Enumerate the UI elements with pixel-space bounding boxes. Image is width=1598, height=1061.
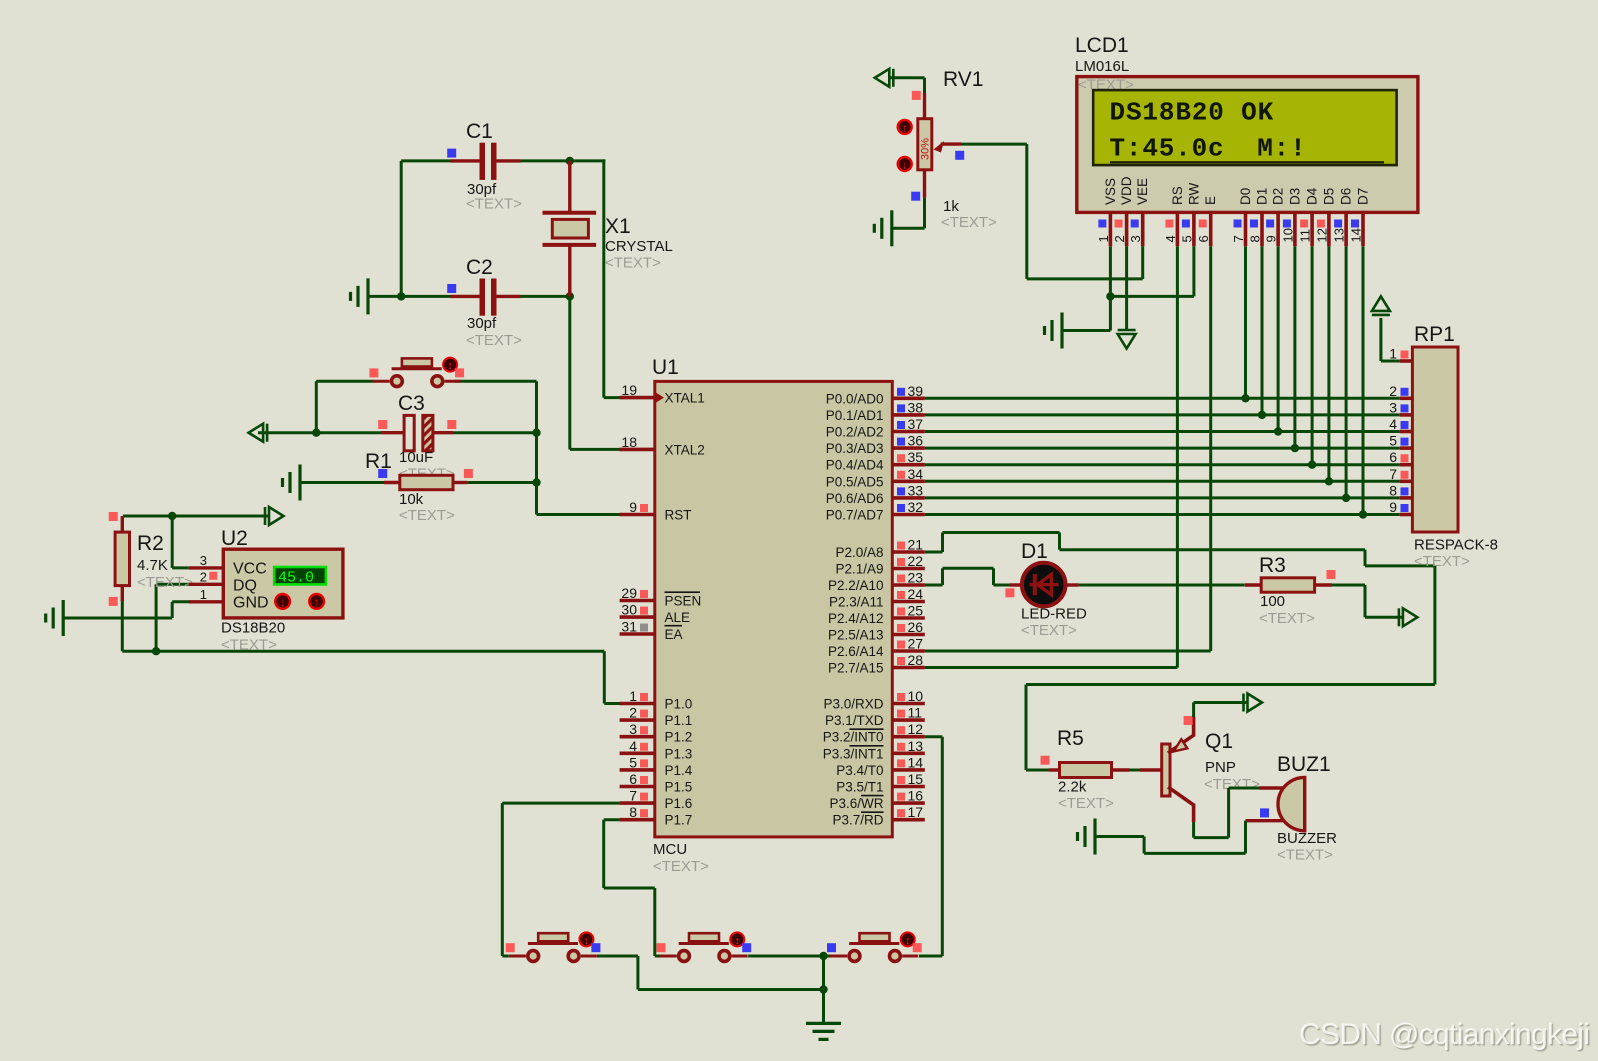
U1 pin 15 P3.5/T1 [892, 785, 925, 789]
svg-text:13: 13 [1332, 228, 1347, 242]
svg-text:33: 33 [908, 482, 924, 498]
svg-text:P2.2/A10: P2.2/A10 [828, 578, 884, 593]
svg-text:X1: X1 [605, 215, 631, 238]
svg-text:18: 18 [621, 434, 637, 450]
ground near U2 [62, 600, 65, 636]
svg-text:P0.5/AD5: P0.5/AD5 [826, 474, 884, 489]
node C3 right junction [532, 429, 540, 437]
svg-text:8: 8 [629, 804, 637, 820]
svg-text:<TEXT>: <TEXT> [1277, 847, 1333, 864]
U1 pin 16 P3.6/WR [892, 801, 925, 805]
svg-text:↕: ↕ [905, 935, 911, 947]
power arrow right of R3 [1403, 608, 1418, 626]
wire U2 GND to ground [171, 602, 174, 618]
wire BUZ1 bottom to ground [1244, 821, 1247, 854]
U1 pin 22 P2.1/A9 [892, 567, 925, 571]
U1 pin 35 P0.4/AD4 [892, 463, 925, 467]
svg-text:CRYSTAL: CRYSTAL [605, 238, 673, 255]
svg-text:4: 4 [1389, 416, 1397, 432]
wire button2 right [748, 955, 833, 958]
svg-text:P3.5/T1: P3.5/T1 [836, 780, 883, 795]
U1 pin 2 P1.1 [620, 718, 655, 722]
RP1 pin 2 [1400, 396, 1413, 400]
svg-text:P0.1/AD1: P0.1/AD1 [826, 408, 884, 423]
potentiometer RV1 [923, 93, 926, 119]
capacitor C3 [381, 431, 404, 434]
svg-text:39: 39 [908, 383, 924, 399]
ground near R1 [298, 465, 301, 501]
wire LCD D2 vertical [1277, 246, 1280, 431]
svg-text:9: 9 [629, 499, 637, 515]
svg-text:D4: D4 [1305, 187, 1320, 205]
U1 pin 30 ALE [620, 615, 655, 619]
wire RST to pin 9 [537, 513, 622, 516]
capacitor C2 [451, 295, 481, 298]
svg-text:P1.7: P1.7 [665, 813, 693, 828]
svg-text:P1.2: P1.2 [665, 730, 693, 745]
crystal X1 [568, 161, 571, 212]
svg-text:P0.2/AD2: P0.2/AD2 [826, 425, 884, 440]
svg-text:VEE: VEE [1135, 178, 1150, 205]
RP1 pin 3 [1400, 413, 1413, 417]
push button 1 [528, 942, 578, 945]
U1 pin 1 P1.0 [620, 702, 655, 706]
svg-text:P1.3: P1.3 [665, 746, 693, 761]
ground bottom center [806, 1022, 841, 1025]
svg-text:P3.6/WR: P3.6/WR [829, 796, 883, 811]
svg-text:3: 3 [1128, 235, 1143, 242]
svg-text:14: 14 [1349, 228, 1364, 242]
LCD1 pin 12 D5 [1327, 212, 1331, 246]
U1 pin 23 P2.2/A10 [892, 583, 925, 587]
capacitor C1 [451, 159, 481, 162]
svg-text:2.2k: 2.2k [1058, 779, 1087, 796]
node VSS/RW junction [1106, 292, 1114, 300]
node C2/X1 junction [566, 292, 574, 300]
svg-text:P2.5/A13: P2.5/A13 [828, 628, 884, 643]
svg-text:30pf: 30pf [467, 315, 497, 332]
svg-text:P0.6/AD6: P0.6/AD6 [826, 491, 884, 506]
MCU U1 body [655, 381, 893, 837]
U1 pin 33 P0.6/AD6 [892, 496, 925, 500]
wire LCD VSS to ground [1109, 246, 1112, 330]
sensor U2 DS18B20 [189, 566, 224, 569]
wire ground drop [822, 956, 825, 1023]
svg-text:RS: RS [1170, 186, 1185, 205]
svg-text:8: 8 [1389, 482, 1397, 498]
node C3 left junction [312, 429, 320, 437]
wire R3 to power arrow [1332, 584, 1365, 587]
LCD1 pin 9 D2 [1276, 212, 1280, 246]
svg-text:4: 4 [629, 738, 637, 754]
svg-text:<TEXT>: <TEXT> [1021, 622, 1077, 639]
svg-text:32: 32 [908, 499, 924, 515]
LCD1 body [1077, 77, 1418, 213]
U1 pin 34 P0.5/AD5 [892, 479, 925, 483]
svg-text:C3: C3 [398, 392, 425, 415]
svg-text:6: 6 [1196, 235, 1211, 242]
svg-text:XTAL1: XTAL1 [665, 391, 705, 406]
node C2 left junction [397, 292, 405, 300]
svg-text:5: 5 [629, 754, 637, 770]
svg-text:↕: ↕ [584, 935, 590, 947]
svg-text:13: 13 [908, 738, 924, 754]
svg-text:P0.3/AD3: P0.3/AD3 [826, 441, 884, 456]
node D7 junction [1359, 510, 1367, 518]
svg-text:T:45.0c M:!: T:45.0c M:! [1110, 133, 1307, 163]
wire LCD D7 vertical [1362, 246, 1365, 514]
wire P2.2 to D1 [925, 584, 943, 587]
wire P1.7 to button 2 [604, 818, 620, 821]
U1 pin 28 P2.7/A15 [892, 666, 925, 670]
U1 pin 3 P1.2 [620, 735, 655, 739]
U1 pin 26 P2.5/A13 [892, 633, 925, 637]
node D5 junction [1325, 477, 1333, 485]
svg-text:PNP: PNP [1205, 759, 1236, 776]
svg-text:<TEXT>: <TEXT> [653, 858, 709, 875]
svg-text:6: 6 [1389, 449, 1397, 465]
U1 pin 12 P3.2/INT0 [892, 735, 925, 739]
power arrow right of Q1 [1248, 694, 1263, 712]
svg-text:↑: ↑ [902, 122, 908, 134]
U1 pin 21 P2.0/A8 [892, 550, 925, 554]
svg-text:<TEXT>: <TEXT> [221, 637, 277, 654]
resistor pack RP1 [1412, 347, 1458, 532]
wire button1 right to ground bus [597, 955, 638, 958]
wire button3 right to P3.2 [919, 955, 942, 958]
svg-text:35: 35 [908, 449, 924, 465]
resistor R3 [1245, 583, 1261, 586]
LCD1 pin 14 D7 [1361, 212, 1365, 246]
U1 pin 27 P2.6/A14 [892, 649, 925, 653]
wire P0.1 row to RP1 pin 3 [925, 413, 1400, 416]
svg-text:LED-RED: LED-RED [1021, 606, 1087, 623]
RV1 up button [898, 120, 912, 134]
RP1 pin 7 [1400, 479, 1413, 483]
ground near C2 [366, 278, 369, 314]
svg-text:30%: 30% [920, 138, 932, 160]
wire LCD VDD to power [1125, 246, 1128, 330]
RV1 down button [898, 157, 912, 171]
wire LCD RW to VSS [1192, 246, 1195, 296]
LCD1 screen [1093, 90, 1396, 165]
LCD1 pin 13 D6 [1344, 212, 1348, 246]
svg-text:1: 1 [629, 688, 637, 704]
U1 pin 4 P1.3 [620, 751, 655, 755]
U2 up button [309, 594, 324, 609]
svg-text:CSDN @cqtianxingkeji: CSDN @cqtianxingkeji [1299, 1018, 1590, 1051]
svg-text:Q1: Q1 [1205, 730, 1233, 753]
svg-text:RV1: RV1 [943, 68, 983, 91]
svg-text:U2: U2 [221, 527, 248, 550]
svg-text:27: 27 [908, 636, 924, 652]
svg-text:28: 28 [908, 652, 924, 668]
wire Q1 collector to BUZ1 [1192, 822, 1195, 838]
svg-text:31: 31 [621, 619, 637, 635]
node D3 junction [1291, 444, 1299, 452]
svg-text:7: 7 [629, 788, 637, 804]
U1 pin 32 P0.7/AD7 [892, 513, 925, 517]
svg-text:P0.0/AD0: P0.0/AD0 [826, 391, 884, 406]
U1 pin 8 P1.7 [620, 818, 655, 822]
node DQ junction [152, 647, 160, 655]
svg-text:9: 9 [1389, 499, 1397, 515]
svg-text:PSEN: PSEN [665, 594, 702, 609]
U1 pin 14 P3.4/T0 [892, 768, 925, 772]
wire R1 row right [467, 481, 536, 484]
svg-text:C2: C2 [466, 256, 493, 279]
svg-text:23: 23 [908, 570, 924, 586]
svg-text:↕: ↕ [447, 360, 453, 372]
power arrow above RP1 [1372, 296, 1390, 311]
svg-text:30: 30 [621, 602, 637, 618]
wire RP1 pin1 to power [1381, 360, 1400, 363]
svg-text:38: 38 [908, 399, 924, 415]
power arrow down VDD [1118, 334, 1136, 349]
svg-text:D1: D1 [1021, 540, 1048, 563]
svg-text:10: 10 [1280, 228, 1295, 242]
svg-text:3: 3 [1389, 399, 1397, 415]
LCD1 pin 10 D3 [1293, 212, 1297, 246]
svg-text:29: 29 [621, 585, 637, 601]
svg-text:P2.1/A9: P2.1/A9 [835, 562, 883, 577]
svg-text:1: 1 [1389, 346, 1397, 362]
svg-text:45.0: 45.0 [278, 570, 314, 587]
svg-text:↕: ↕ [734, 935, 740, 947]
svg-text:15: 15 [908, 771, 924, 787]
svg-text:P2.4/A12: P2.4/A12 [828, 611, 884, 626]
svg-text:RST: RST [665, 508, 692, 523]
svg-text:6: 6 [629, 771, 637, 787]
transistor Q1 [1140, 768, 1162, 771]
LCD1 pin 2 VDD [1125, 212, 1129, 246]
U1 pin 18 XTAL2 [620, 448, 655, 452]
svg-text:1: 1 [1096, 235, 1111, 242]
svg-text:R3: R3 [1259, 554, 1286, 577]
wire C3 row [258, 431, 381, 434]
U1 pin 6 P1.5 [620, 785, 655, 789]
wire P2.7 to LCD RS [925, 666, 1178, 669]
U1 pin 29 PSEN [620, 599, 655, 603]
svg-text:7: 7 [1231, 235, 1246, 242]
U1 pin 17 P3.7/RD [892, 818, 925, 822]
node VCC junction [168, 512, 176, 520]
U2 down button [275, 594, 290, 609]
svg-text:11: 11 [908, 705, 923, 721]
svg-text:12: 12 [1314, 228, 1329, 242]
svg-text:P1.5: P1.5 [665, 780, 693, 795]
svg-text:<TEXT>: <TEXT> [466, 196, 522, 213]
svg-text:12: 12 [908, 721, 924, 737]
U2 temperature display 45.0 [274, 567, 326, 584]
svg-text:P2.0/A8: P2.0/A8 [835, 545, 883, 560]
wire RV1 top [890, 76, 925, 79]
wire DQ net [121, 599, 124, 651]
U1 pin 13 P3.3/INT1 [892, 751, 925, 755]
svg-text:P3.4/T0: P3.4/T0 [836, 763, 883, 778]
svg-text:<TEXT>: <TEXT> [941, 214, 997, 231]
svg-text:24: 24 [908, 586, 924, 602]
U1 pin 7 P1.6 [620, 801, 655, 805]
svg-text:BUZ1: BUZ1 [1277, 753, 1331, 776]
wire RV1 bottom to ground [923, 198, 926, 229]
svg-text:D0: D0 [1238, 188, 1253, 205]
resistor R1 [300, 481, 400, 484]
svg-text:36: 36 [908, 433, 924, 449]
svg-text:R5: R5 [1057, 727, 1084, 750]
svg-text:D2: D2 [1271, 188, 1286, 205]
svg-text:P3.0/RXD: P3.0/RXD [823, 697, 883, 712]
wire C2 row [368, 295, 451, 298]
U1 pin 10 P3.0/RXD [892, 702, 925, 706]
RP1 pin 9 [1400, 513, 1413, 517]
node D4 junction [1308, 461, 1316, 469]
svg-text:10k: 10k [399, 491, 424, 508]
LCD1 pin 4 RS [1176, 212, 1180, 246]
svg-text:P1.1: P1.1 [665, 713, 693, 728]
wire P2.0 to R5 net [925, 551, 943, 554]
U1 pin 37 P0.2/AD2 [892, 430, 925, 434]
svg-text:BUZZER: BUZZER [1277, 830, 1337, 847]
svg-text:<TEXT>: <TEXT> [137, 574, 193, 591]
svg-text:↑: ↑ [313, 595, 320, 610]
U1 pin 36 P0.3/AD3 [892, 446, 925, 450]
svg-text:EA: EA [665, 627, 683, 642]
svg-text:34: 34 [908, 466, 924, 482]
svg-text:P3.2/INT0: P3.2/INT0 [823, 730, 884, 745]
svg-text:GND: GND [233, 595, 269, 612]
wire R5 to Q1 base [1130, 769, 1141, 772]
wire C1 right to XTAL1 net [521, 159, 606, 162]
svg-text:2: 2 [629, 705, 637, 721]
wire LCD D3 vertical [1293, 246, 1296, 448]
svg-text:R1: R1 [365, 450, 392, 473]
node D6 junction [1342, 494, 1350, 502]
U1 pin 39 P0.0/AD0 [892, 396, 925, 400]
wire LCD VEE to RV1 wiper [1141, 246, 1144, 279]
U1 pin 31 EA [620, 632, 655, 636]
svg-text:19: 19 [621, 382, 637, 398]
U1 pin 11 P3.1/TXD [892, 718, 925, 722]
U1 pin 19 XTAL1 [620, 396, 655, 400]
node C1/X1 junction [566, 157, 574, 165]
wire LCD D5 vertical [1327, 246, 1330, 481]
power arrow left RV1 [875, 69, 890, 87]
push button RESET [392, 367, 442, 370]
ground below LCD [1060, 313, 1063, 349]
RP1 pin 5 [1400, 446, 1413, 450]
wire C1 left to C2 junction vertical [400, 161, 403, 297]
wire LCD D6 vertical [1345, 246, 1348, 498]
svg-text:25: 25 [908, 603, 924, 619]
svg-text:<TEXT>: <TEXT> [1058, 795, 1114, 812]
wire P0.0 row to RP1 pin 2 [925, 397, 1400, 400]
RV1 wiper [941, 142, 961, 145]
wire P0.3 row to RP1 pin 5 [925, 447, 1400, 450]
svg-text:100: 100 [1260, 593, 1285, 610]
svg-text:U1: U1 [652, 356, 679, 379]
svg-text:P3.1/TXD: P3.1/TXD [825, 713, 884, 728]
RP1 pin 4 [1400, 430, 1413, 434]
wire Q1 emitter to power [1192, 703, 1195, 718]
svg-text:D1: D1 [1255, 188, 1270, 205]
svg-text:22: 22 [908, 553, 924, 569]
svg-text:P0.7/AD7: P0.7/AD7 [826, 508, 884, 523]
svg-text:2: 2 [1389, 383, 1397, 399]
svg-text:D5: D5 [1321, 188, 1336, 205]
svg-text:RP1: RP1 [1414, 323, 1455, 346]
svg-text:10: 10 [908, 688, 924, 704]
U1 pin 9 RST [620, 513, 655, 517]
svg-text:3: 3 [629, 721, 637, 737]
U1 pin 5 P1.4 [620, 768, 655, 772]
svg-text:16: 16 [908, 788, 924, 804]
node R1 right junction [532, 478, 540, 486]
svg-text:LM016L: LM016L [1075, 58, 1129, 75]
wire P0.2 row to RP1 pin 4 [925, 430, 1400, 433]
svg-text:<TEXT>: <TEXT> [466, 332, 522, 349]
svg-text:P2.7/A15: P2.7/A15 [828, 661, 884, 676]
svg-text:D3: D3 [1287, 188, 1302, 205]
buzzer BUZ1 [1259, 786, 1285, 789]
svg-text:<TEXT>: <TEXT> [399, 507, 455, 524]
U1 pin 25 P2.4/A12 [892, 616, 925, 620]
svg-text:17: 17 [908, 804, 924, 820]
RP1 pin 1 [1400, 359, 1413, 363]
svg-text:↓: ↓ [902, 159, 908, 171]
svg-text:DQ: DQ [233, 578, 257, 595]
wire P2.6 to LCD E [925, 650, 1211, 653]
svg-text:XTAL2: XTAL2 [665, 442, 705, 457]
svg-text:RW: RW [1186, 182, 1201, 205]
svg-text:1k: 1k [943, 198, 959, 215]
svg-text:37: 37 [908, 416, 924, 432]
node ground bus junction [819, 985, 827, 993]
svg-text:7: 7 [1389, 466, 1397, 482]
svg-text:2: 2 [200, 570, 207, 585]
svg-text:↓: ↓ [279, 595, 286, 610]
node D2 junction [1274, 427, 1282, 435]
ground near BUZ1 [1093, 819, 1096, 855]
wire P0.4 row to RP1 pin 6 [925, 463, 1400, 466]
LCD1 pin 1 VSS [1109, 212, 1113, 246]
push button 3 [849, 942, 899, 945]
svg-text:MCU: MCU [653, 841, 687, 858]
push button 2 [679, 942, 729, 945]
ground below RV1 [890, 210, 893, 246]
svg-text:R2: R2 [137, 532, 164, 555]
svg-text:9: 9 [1264, 235, 1279, 242]
U1 active-low overlines [850, 728, 884, 730]
wire P0.6 row to RP1 pin 8 [925, 496, 1400, 499]
svg-text:LCD1: LCD1 [1075, 34, 1129, 57]
LCD1 pin 7 D0 [1244, 212, 1248, 246]
U1 pin 38 P0.1/AD1 [892, 413, 925, 417]
svg-text:2: 2 [1112, 235, 1127, 242]
svg-text:P1.0: P1.0 [665, 697, 693, 712]
svg-text:VCC: VCC [233, 561, 267, 578]
power arrow left of C3 [249, 424, 264, 442]
wire VCC rail to U2 [123, 515, 268, 518]
svg-text:VDD: VDD [1119, 176, 1134, 205]
LCD1 pin 11 D4 [1310, 212, 1314, 246]
LCD1 pin 8 D1 [1260, 212, 1264, 246]
wire LCD D4 vertical [1311, 246, 1314, 465]
svg-text:P2.6/A14: P2.6/A14 [828, 644, 884, 659]
svg-text:C1: C1 [466, 120, 493, 143]
svg-text:VSS: VSS [1103, 178, 1118, 205]
svg-text:E: E [1203, 196, 1218, 205]
